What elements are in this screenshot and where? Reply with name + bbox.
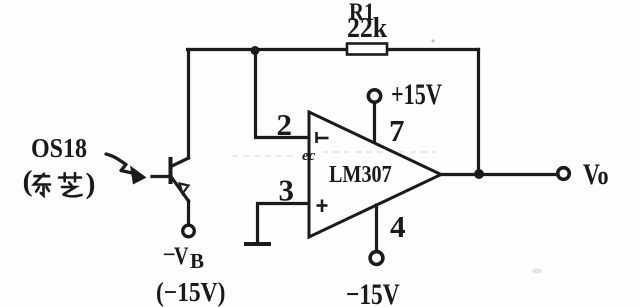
svg-text:OS18: OS18 (31, 133, 87, 164)
svg-text:22k: 22k (347, 12, 387, 43)
svg-text:V: V (174, 242, 189, 270)
svg-text:LM307: LM307 (329, 160, 392, 187)
svg-text:2: 2 (277, 107, 293, 142)
svg-text:4: 4 (390, 209, 406, 244)
svg-text:−15V: −15V (346, 277, 400, 307)
svg-text:7: 7 (389, 113, 405, 148)
svg-text:(: ( (23, 165, 33, 198)
svg-text:(−15V): (−15V) (156, 278, 225, 307)
svg-text:o: o (598, 162, 609, 190)
svg-text:3: 3 (279, 173, 295, 208)
svg-text:+15V: +15V (391, 77, 442, 111)
svg-text:B: B (190, 249, 204, 273)
svg-text:): ) (86, 167, 96, 200)
